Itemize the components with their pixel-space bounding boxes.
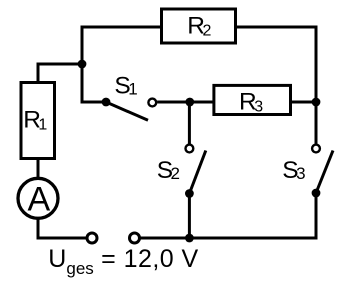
switch S2 throw (open circle) <box>186 145 194 153</box>
node junction bottom (S2 branch) <box>185 234 194 243</box>
wire S2 stub <box>188 102 191 144</box>
wire top-left: R2 left lead down to S1 branch <box>82 27 160 102</box>
terminal right (open circle) <box>130 233 140 243</box>
switch S3 throw (open circle) <box>312 145 320 153</box>
switch S2 pole dot <box>185 189 194 198</box>
wire R3 right lead <box>291 101 318 104</box>
wire bottom rail to right vertical <box>140 193 316 238</box>
wire S2 bottom <box>188 194 191 239</box>
switch S1 throw (open circle) <box>148 99 156 107</box>
switch S2 blade <box>189 151 205 194</box>
wire R1 bottom to ammeter <box>37 159 40 180</box>
wire R1 top lead to junction <box>38 64 84 84</box>
svg-text:A: A <box>27 180 50 218</box>
resistor R2 <box>162 9 236 43</box>
switch S3 blade <box>316 151 333 194</box>
wire S1 to R3 <box>157 101 214 104</box>
resistor R3 <box>214 85 291 114</box>
ammeter A <box>18 178 58 218</box>
wire R2 right lead and right vertical rail <box>234 27 316 144</box>
terminal left (open circle) <box>87 233 97 243</box>
switch S1 blade <box>106 102 148 120</box>
node junction right (R3/right rail) <box>312 98 321 107</box>
switch S1 pole dot <box>102 98 111 107</box>
resistor R1 <box>21 83 55 159</box>
switch S3 pole dot <box>312 189 321 198</box>
wire ammeter bottom to left terminal <box>38 218 87 238</box>
node junction middle (S2 branch top) <box>185 98 194 107</box>
node junction left (R1/R2/S1) <box>78 60 87 69</box>
